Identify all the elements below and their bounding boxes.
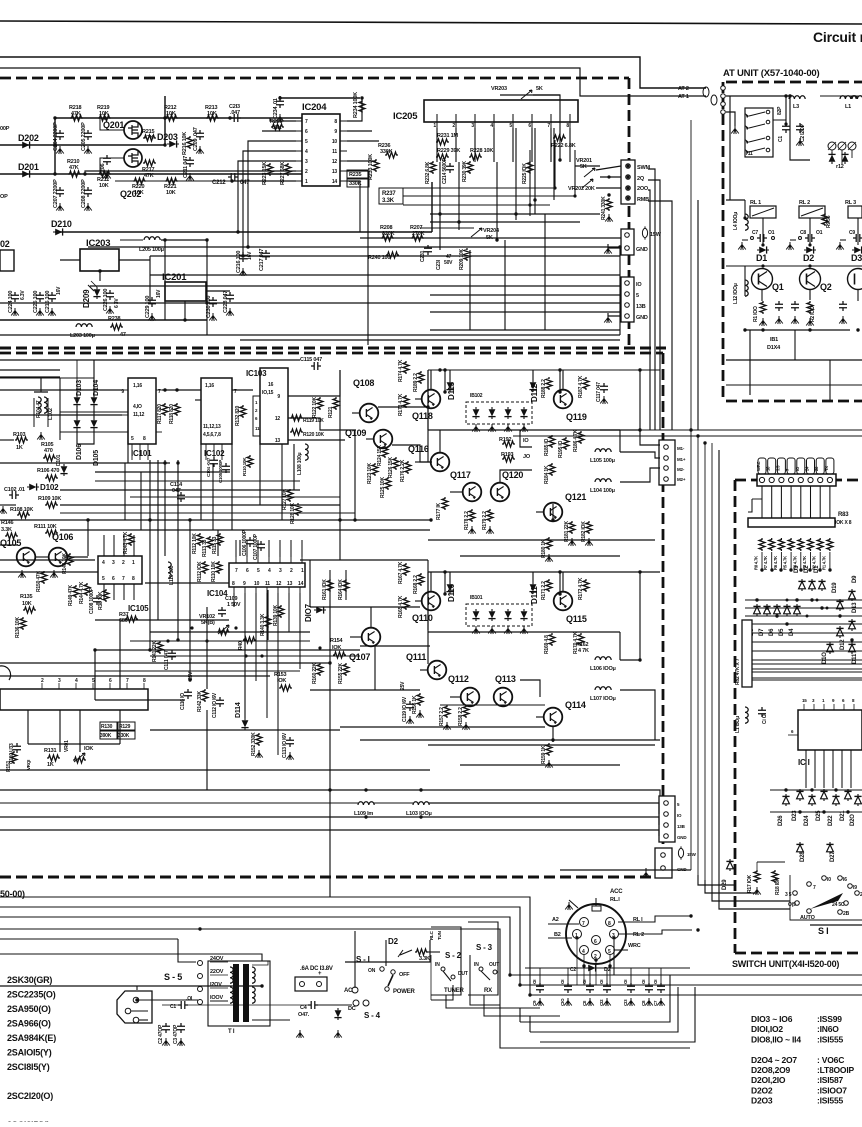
wire 2q bus — [648, 180, 660, 430]
capacitor C3 pwr — [173, 1023, 185, 1046]
svg-text:R17 IOK: R17 IOK — [747, 874, 753, 893]
resistor R181 — [564, 520, 576, 546]
ic204 pin 10 — [332, 139, 347, 145]
resistor R141 — [152, 640, 163, 662]
wire u2 y646 — [360, 645, 430, 647]
svg-text:11: 11 — [265, 581, 270, 587]
svg-text:47K: 47K — [144, 173, 154, 179]
svg-text:16V: 16V — [56, 286, 62, 295]
wire vbus bottom exit — [560, 869, 691, 871]
connector comb — [758, 458, 834, 474]
wire blk2 v620 — [619, 632, 621, 660]
svg-text:TUN: TUN — [437, 931, 442, 940]
svg-text:C205 2200P: C205 2200P — [81, 122, 87, 151]
resistor R130 — [100, 722, 117, 739]
svg-text:R2 IOO: R2 IOO — [810, 306, 816, 322]
svg-text:R188 2.2: R188 2.2 — [541, 379, 547, 398]
icb pin 4 — [75, 678, 78, 689]
wire q118 col — [430, 370, 432, 390]
diode D1 at — [756, 246, 769, 263]
svg-text:R118 820: R118 820 — [169, 404, 175, 424]
svg-text:R123 10K: R123 10K — [367, 462, 373, 484]
wire mesh h3 — [162, 389, 201, 391]
wire d col v2 — [93, 406, 95, 418]
svg-text:R174 4.7K: R174 4.7K — [398, 359, 404, 382]
svg-text:1,16: 1,16 — [133, 383, 142, 389]
ic104 top pin 2 — [290, 548, 293, 574]
svg-text:5K(B): 5K(B) — [201, 620, 215, 626]
ic205 pin 8 — [566, 122, 570, 129]
connector SWM block — [621, 160, 650, 204]
unit2 dashed border right — [662, 353, 665, 877]
resistor R189 — [413, 371, 424, 392]
svg-text:R178 2.2: R178 2.2 — [464, 511, 470, 530]
resistor R156 — [412, 693, 424, 718]
unit2 dashed border top — [0, 352, 663, 355]
led D2 pwr — [388, 937, 412, 957]
svg-text:OI: OI — [623, 980, 628, 984]
ic205 pin 6 — [528, 122, 532, 129]
resistor R164 — [338, 579, 349, 600]
svg-text:R106 470: R106 470 — [37, 468, 59, 474]
wire L104 conn — [620, 468, 660, 482]
label 16V c — [247, 251, 253, 260]
capacitor C7 — [751, 230, 775, 242]
svg-text:R140 3.3K: R140 3.3K — [260, 613, 266, 636]
capacitor C209 — [193, 127, 204, 151]
svg-text:12: 12 — [275, 416, 281, 422]
wire at bot2 — [726, 359, 862, 361]
wire din rl2 — [618, 930, 692, 934]
svg-text:.OI: .OI — [186, 996, 193, 1002]
svg-text:C116 IO: C116 IO — [180, 693, 186, 710]
wire q121 b — [536, 511, 544, 513]
diode D105 — [90, 418, 100, 466]
svg-text:R181 22K: R181 22K — [564, 520, 570, 542]
wire left edge y360 — [0, 369, 60, 371]
switch S-2 — [435, 951, 468, 994]
svg-text:R179 2.2: R179 2.2 — [482, 511, 488, 530]
wire l12 col — [744, 266, 746, 296]
svg-text:R110 10K: R110 10K — [242, 457, 247, 476]
power sw lever — [385, 975, 393, 991]
svg-text:D13: D13 — [852, 602, 858, 613]
resistor R228 — [469, 148, 493, 160]
wire y481 — [95, 480, 300, 482]
capacitor C115 — [300, 357, 322, 370]
label diodelist DIO8,IIO ~ II4 — [751, 1034, 843, 1044]
transformer T1 core — [228, 964, 255, 1035]
transistor Q105 — [0, 538, 35, 578]
resistor R185 — [544, 435, 555, 456]
svg-text:RL.I: RL.I — [610, 897, 620, 903]
svg-text:R232 6.8K: R232 6.8K — [425, 161, 431, 184]
svg-text:I2OV: I2OV — [210, 982, 222, 988]
svg-text:R141 22K: R141 22K — [152, 640, 158, 662]
switch S-4 — [364, 1011, 381, 1020]
svg-text:10K: 10K — [166, 190, 176, 196]
capacitor C104 — [206, 457, 218, 477]
label 16V — [56, 286, 62, 295]
svg-text:C9: C9 — [849, 230, 855, 236]
svg-text::ISI555: :ISI555 — [817, 1096, 843, 1106]
wire frame line 2 — [0, 57, 706, 88]
svg-text:7: 7 — [122, 576, 125, 582]
label pin TX — [824, 466, 829, 471]
svg-text:470: 470 — [44, 448, 53, 454]
transformer L102 — [34, 397, 54, 440]
svg-text:.6A DC I3.8V: .6A DC I3.8V — [300, 966, 333, 972]
svg-text:L203 100μ: L203 100μ — [70, 333, 95, 339]
resistor Rnet7 — [763, 538, 775, 570]
ic104 bottom pin 13 — [287, 581, 293, 593]
wire y360 — [0, 359, 300, 361]
svg-text:00P: 00P — [0, 126, 10, 132]
svg-text:R216 10K: R216 10K — [182, 132, 188, 155]
capacitor C1 sw — [758, 707, 768, 724]
wire c234 top — [280, 96, 360, 98]
resistor R238 — [108, 316, 126, 338]
resistor R113 — [202, 536, 213, 557]
capacitor C119 — [400, 681, 414, 724]
icb pin 5 — [92, 678, 95, 689]
resistor R234 — [353, 92, 365, 118]
wire top bus — [55, 117, 302, 119]
svg-text:3: 3 — [471, 123, 474, 129]
wire frame line 3 — [0, 68, 706, 96]
svg-text:1: 1 — [433, 123, 436, 129]
wire r220 row — [115, 180, 232, 182]
wire v620 — [619, 247, 621, 335]
wire rl1 col — [744, 200, 746, 218]
wire q1 e — [761, 290, 763, 301]
resistor R211 — [97, 171, 111, 189]
svg-text:3.3K: 3.3K — [1, 527, 12, 533]
wire s2 frame — [431, 955, 453, 1000]
capacitor C4 pwr — [296, 1001, 318, 1038]
svg-text:R176 2.2K: R176 2.2K — [400, 459, 406, 482]
gnd c7 — [738, 240, 748, 250]
svg-text:3 5: 3 5 — [785, 892, 792, 898]
svg-text:D25: D25 — [816, 810, 822, 821]
svg-text:13: 13 — [275, 438, 281, 444]
svg-text:IO: IO — [523, 438, 529, 444]
svg-text:L12 IOOμ: L12 IOOμ — [733, 283, 739, 304]
ic1 pin 6 — [842, 698, 845, 710]
svg-text:4: 4 — [490, 123, 493, 129]
capacitor C231 — [420, 245, 432, 262]
wire din rl1 — [618, 916, 692, 922]
diode D11 sw — [848, 642, 858, 664]
wire u2 y412 — [60, 411, 128, 413]
wire matrix h3 — [745, 615, 862, 617]
wire u1 y312 — [430, 311, 620, 313]
wire y520 — [0, 519, 430, 521]
svg-text:R189 2.2: R189 2.2 — [413, 373, 419, 392]
capacitor C110 — [9, 743, 21, 764]
wire din wrc — [614, 949, 628, 951]
transistor Q108 — [353, 378, 378, 422]
wire u2 lb2 — [59, 710, 61, 752]
svg-text:R1 IOO: R1 IOO — [753, 306, 759, 322]
resistor R123 — [367, 462, 378, 484]
wire y238 — [360, 237, 630, 239]
plug P1 — [117, 991, 198, 1023]
svg-text:S - 2: S - 2 — [445, 951, 462, 960]
ic205 pin 4 — [490, 122, 494, 129]
svg-text:R167 4.7K: R167 4.7K — [398, 561, 404, 584]
resistor R125 — [380, 476, 391, 498]
wire bot bus4 — [0, 929, 690, 1048]
wire q110 b — [415, 600, 422, 602]
resistor R126 — [388, 456, 399, 478]
svg-text:IOK X 8: IOK X 8 — [835, 520, 852, 526]
svg-text:RL 2: RL 2 — [799, 200, 810, 206]
wire u1 y345 short — [240, 339, 620, 341]
switch S1 on — [368, 967, 384, 974]
wire pwr right — [355, 931, 440, 988]
resistor R129 — [118, 722, 135, 739]
wire bot bus2 — [0, 907, 862, 985]
inductor L205 — [120, 237, 207, 253]
resistor R158 — [458, 705, 470, 730]
wire matrix h2 — [745, 607, 862, 609]
svg-text:D6: D6 — [769, 628, 775, 636]
diode D21 sw — [840, 789, 852, 821]
wire at v730 — [729, 96, 731, 200]
wire ic205 drop2 — [458, 162, 460, 230]
svg-text:IOOV: IOOV — [210, 995, 223, 1001]
svg-text:2SC2I20(O): 2SC2I20(O) — [7, 1091, 53, 1101]
svg-text:R135: R135 — [20, 594, 32, 600]
wire q107 b — [350, 636, 362, 638]
svg-text:24OV: 24OV — [210, 956, 224, 962]
wire y530 — [60, 529, 430, 531]
resistor R241 — [601, 196, 612, 220]
svg-text:10K: 10K — [99, 111, 109, 117]
svg-text:D210: D210 — [51, 219, 72, 229]
svg-text::ISS99: :ISS99 — [817, 1014, 842, 1024]
connector M1 block — [659, 440, 686, 485]
label pin 3.5 — [775, 465, 780, 471]
relay RL3 — [845, 200, 862, 218]
pot VR101 — [64, 740, 93, 763]
svg-text:M1+: M1+ — [677, 457, 686, 462]
svg-text:Q119: Q119 — [566, 412, 587, 422]
resistor R182 — [581, 521, 593, 546]
resistor R142 — [197, 689, 208, 712]
resistor R174 — [398, 359, 409, 382]
icb pin 7 — [126, 678, 129, 689]
gnd c216 — [239, 268, 247, 276]
svg-text:D111: D111 — [530, 586, 539, 604]
wire d112 top — [532, 370, 534, 380]
wire u1m y188 — [403, 187, 555, 189]
svg-text:R110 10K: R110 10K — [211, 561, 217, 582]
ic205 pin 5 — [509, 122, 513, 129]
ic204 pin 11 — [332, 149, 347, 155]
capacitor C114 — [170, 482, 185, 502]
svg-text:24 5O: 24 5O — [832, 902, 845, 908]
svg-text:Q108: Q108 — [353, 378, 374, 388]
wire plug v — [136, 986, 138, 990]
resistor R186 — [573, 429, 584, 452]
diode D110 — [446, 582, 456, 602]
svg-text:D19: D19 — [832, 582, 838, 593]
ic204 pin 6 — [296, 129, 308, 135]
svg-text:R124 15K: R124 15K — [377, 444, 383, 466]
capacitor Cq1 — [775, 301, 783, 324]
svg-text:IC205: IC205 — [393, 111, 418, 122]
svg-text:16V: 16V — [156, 289, 162, 298]
label pin 24 — [805, 466, 810, 471]
wire din drops — [577, 940, 614, 985]
led D209 — [82, 281, 101, 308]
capacitor C229 — [145, 296, 156, 318]
connector row switch — [757, 474, 836, 486]
svg-text:R115 33: R115 33 — [212, 536, 218, 554]
wire q118 b — [415, 398, 422, 400]
svg-text:B2: B2 — [554, 932, 561, 938]
resistor R208 — [380, 225, 395, 241]
svg-text:R7 4.7K: R7 4.7K — [763, 556, 768, 570]
wire d-col2 — [93, 360, 95, 395]
ic204 pin 2 — [296, 169, 308, 175]
connector 15W block — [642, 846, 696, 878]
resistor R1 at — [753, 301, 767, 326]
ic205 pin 1 — [433, 122, 437, 129]
wire v207 — [206, 240, 208, 335]
pot VR202 — [568, 179, 595, 192]
wire at row2 — [726, 199, 745, 201]
svg-text:R112 10K: R112 10K — [192, 533, 198, 554]
svg-text:AT 1: AT 1 — [678, 94, 689, 100]
svg-text:8: 8 — [566, 123, 569, 129]
wire d2 col — [809, 218, 811, 245]
wire u1 v470 — [469, 250, 471, 330]
wire blk1 v620 — [619, 430, 621, 452]
svg-text:7: 7 — [235, 568, 238, 574]
svg-text:D2O: D2O — [850, 814, 856, 826]
svg-text:M2+: M2+ — [677, 477, 686, 482]
svg-text:50V: 50V — [444, 260, 453, 266]
inductor L4 — [733, 212, 748, 230]
wire q111 b — [420, 669, 428, 671]
label diodelist D2OI,2IO — [751, 1075, 843, 1085]
trimmer r12 — [828, 142, 856, 170]
wire at v830 — [829, 360, 831, 401]
ic205 pin 3 — [471, 122, 475, 129]
resistor R109 — [38, 496, 61, 508]
svg-text:A2: A2 — [552, 917, 559, 923]
capacitor C105 — [218, 460, 230, 483]
svg-text:9: 9 — [334, 129, 337, 135]
wire ic204 p8 — [347, 98, 362, 121]
transistor Q120 — [491, 470, 524, 501]
svg-text:R108 10K: R108 10K — [10, 507, 33, 513]
voltage taps — [198, 956, 229, 1005]
svg-text:R180 1K: R180 1K — [541, 539, 547, 558]
ic IC202 box — [0, 239, 14, 271]
inductor L108 — [297, 444, 308, 475]
svg-text:OI: OI — [532, 980, 537, 984]
gnd c228 — [226, 308, 234, 316]
svg-text:O1: O1 — [768, 230, 775, 236]
svg-text:C3 47OP: C3 47OP — [173, 1024, 179, 1044]
wire v150 u1 — [149, 256, 151, 303]
svg-text:Q107: Q107 — [349, 652, 370, 662]
unit1 dashed border right — [628, 78, 631, 348]
gnd c9 — [836, 240, 846, 250]
ic104 top pin 1 — [301, 548, 304, 574]
svg-text:.047: .047 — [230, 110, 240, 116]
capacitor C205 — [81, 122, 92, 151]
resistor R178 — [464, 509, 476, 534]
resistor R115 — [212, 533, 223, 554]
svg-text:R237: R237 — [382, 191, 396, 197]
diode D3 sw — [794, 565, 806, 591]
transistor Q117 — [450, 470, 481, 501]
svg-text:VR203: VR203 — [491, 86, 507, 92]
svg-text:IC I: IC I — [798, 758, 810, 767]
diode pwr — [334, 1008, 342, 1038]
svg-text:DUT: DUT — [458, 971, 468, 977]
wire d1 col — [762, 218, 764, 245]
wire ic104 vdrops — [234, 593, 300, 755]
diode array IB101 — [466, 595, 532, 634]
wire v355 — [354, 430, 356, 520]
svg-text::ISI555: :ISI555 — [817, 1034, 843, 1044]
wire blk2 left — [427, 572, 429, 664]
svg-text:4,5,6,7,8: 4,5,6,7,8 — [203, 432, 221, 438]
svg-text:D2O8,2O9: D2O8,2O9 — [751, 1065, 791, 1075]
svg-text:D1: D1 — [756, 253, 767, 263]
diode D12 sw — [836, 626, 846, 650]
svg-text:4: 4 — [75, 678, 78, 684]
capacitor C1 at — [778, 123, 790, 142]
resistor R154 — [330, 638, 346, 658]
wire matrix h6 — [745, 672, 862, 680]
svg-text:11: 11 — [255, 426, 260, 431]
svg-text:RL 1: RL 1 — [750, 200, 761, 206]
wire u1 v360 — [359, 186, 361, 232]
wire q116 b — [415, 461, 431, 463]
resistor R159 — [541, 743, 553, 768]
switch unit dashed border bottom — [735, 952, 862, 955]
svg-text:C225 100: C225 100 — [33, 291, 39, 313]
wire block2 frame — [428, 571, 660, 573]
svg-text::ISI587: :ISI587 — [817, 1075, 843, 1085]
svg-text:2SA966(O): 2SA966(O) — [7, 1019, 51, 1029]
wire v346 — [345, 570, 347, 600]
wire ic105 bots — [104, 584, 134, 600]
svg-text:R130: R130 — [101, 724, 113, 730]
svg-text:DIO8,IIO ~ II4: DIO8,IIO ~ II4 — [751, 1034, 801, 1044]
unit2 dashed border bottom — [0, 876, 663, 879]
transistor Q107 — [349, 628, 380, 662]
capacitor CII din — [582, 968, 594, 1006]
ic204 pin 9 — [334, 129, 347, 135]
svg-text:4,IO: 4,IO — [133, 404, 142, 410]
ic bottom box — [0, 689, 148, 710]
resistor R144 — [79, 581, 90, 604]
ic IC103 — [246, 368, 294, 444]
capacitor C228 — [223, 291, 234, 313]
svg-text:1,16: 1,16 — [205, 383, 214, 389]
label pin 7 — [785, 468, 790, 471]
wire u2 cm1 — [127, 430, 129, 463]
diode D23 sw — [792, 789, 804, 821]
